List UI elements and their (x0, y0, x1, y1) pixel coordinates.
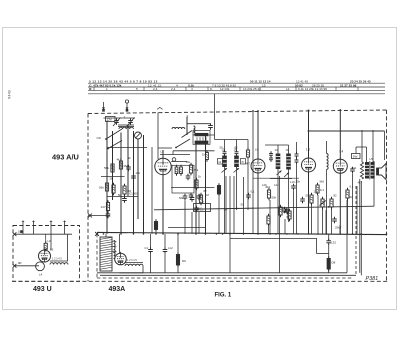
svg-text:C1000: C1000 (129, 192, 138, 196)
output tube V4 (333, 159, 347, 173)
D9 lead lower (177, 265, 179, 273)
cap cluster 1041 box (194, 204, 211, 212)
bottom line 2 (100, 274, 356, 276)
parts value table rules (88, 82, 385, 84)
svg-text:8,: 8, (210, 87, 213, 91)
aerial input wire (104, 117, 136, 119)
resistor D9 (176, 255, 179, 266)
capacitor C5 (131, 175, 136, 177)
IF1 top feed wire (215, 139, 249, 141)
chassis inner dashed line above bottom (97, 277, 352, 279)
caret mark above top edge (157, 107, 163, 109)
D8 chain vertical upper (328, 234, 330, 241)
svg-text:8k2: 8k2 (266, 185, 271, 189)
capacitor C11b (291, 185, 296, 187)
AVC bus wire (154, 206, 374, 210)
svg-text:28: 28 (110, 177, 114, 181)
mid cluster bottom wire (168, 227, 205, 229)
svg-text:5: 5 (136, 87, 138, 91)
grid circuit wire box (172, 165, 194, 193)
capacitor C12 (300, 198, 305, 200)
svg-text:5W: 5W (353, 155, 358, 159)
capacitor L12 bottom (163, 249, 168, 251)
svg-text:147: 147 (101, 205, 106, 209)
V1 cathode resistor (154, 222, 157, 230)
V3 cathode vertical (308, 172, 310, 234)
resistor R9 (199, 195, 202, 203)
IF2 unit 2 coil ladder (286, 154, 291, 170)
bus feeder verticals (151, 147, 153, 234)
cap cluster vertical leads (184, 201, 186, 234)
493A tube top lead (119, 234, 121, 253)
mixer tube V1 (155, 158, 171, 174)
493A transformer primary lead (105, 234, 107, 237)
svg-text:4k7: 4k7 (246, 162, 251, 166)
svg-text:493A: 493A (109, 286, 126, 293)
chassis dashed border bottom (12, 280, 388, 282)
capacitor C8 0,1 (194, 207, 199, 209)
V1 cathode wire (162, 175, 164, 234)
cap cluster capacitor a (183, 195, 188, 197)
V1 anode wire (162, 150, 164, 158)
long vertical x230 (229, 176, 231, 273)
output transformer primary winding (365, 162, 369, 179)
493A transformer taps (112, 241, 117, 243)
svg-text:4: 4 (176, 83, 178, 87)
osc horizontal wire b (195, 134, 215, 136)
cap cluster capacitor c (197, 195, 202, 197)
svg-text:2,4: 2,4 (171, 87, 176, 91)
svg-text:5k6: 5k6 (320, 180, 325, 184)
svg-text:50 11 12 13 14: 50 11 12 13 14 (250, 79, 271, 83)
chassis dashed border left (87, 114, 89, 282)
resistor Ra (175, 167, 178, 174)
V1 top junction wire (158, 147, 172, 149)
front-end vertical wire g (143, 135, 145, 234)
second switch blade (108, 141, 122, 149)
svg-text:13k: 13k (314, 190, 319, 194)
493U output coil (50, 263, 68, 265)
IF2 unit 1 coil ladder (276, 154, 281, 170)
V4 anode vertical (339, 110, 341, 159)
capacitor C6 (106, 213, 111, 215)
output transformer secondary winding (371, 162, 375, 179)
D8 chain vertical mid (328, 245, 330, 259)
svg-text:14: 14 (275, 148, 278, 152)
front-end junction wire (107, 147, 147, 149)
bus left terminal (95, 232, 99, 236)
svg-text:12 13k: 12 13k (220, 87, 230, 91)
svg-text:4,7: 4,7 (200, 200, 204, 204)
IF2 unit 2 top lead (288, 145, 290, 154)
493U coil tail wire (67, 234, 69, 261)
493A mains transformer core (100, 237, 112, 271)
output choke zigzag (360, 162, 363, 179)
right rail drop (384, 131, 386, 160)
resistor R14 0,1 (316, 185, 319, 193)
493A dashed left edge (96, 234, 98, 278)
aerial terminal node (102, 109, 105, 112)
main chassis bus (97, 232, 387, 234)
resistor R11 (267, 190, 270, 198)
493U small circle (36, 262, 45, 271)
svg-text:R:: R: (89, 87, 92, 91)
left edge terminal stub (88, 214, 92, 218)
IF2 adjust arrow 1 (277, 171, 282, 176)
IF2 unit 1 top lead (277, 145, 279, 154)
osc corner drop (172, 151, 174, 155)
chassis dashed border right (386, 110, 388, 281)
svg-text:50k: 50k (272, 196, 277, 200)
svg-text:L5: L5 (50, 248, 54, 252)
oscillator winding bar 2 (195, 141, 208, 144)
IF1 unit 1 lead (224, 140, 226, 152)
IF2 top wire (265, 144, 289, 146)
capacitor Cc (186, 175, 191, 177)
capacitor C9 (246, 194, 251, 196)
AVC junction dot 2 (328, 206, 330, 208)
493A filter coil (125, 264, 143, 266)
svg-text:25k: 25k (193, 168, 198, 172)
493A rectifier tube (115, 253, 127, 265)
svg-text:50: 50 (306, 194, 310, 198)
svg-text:1: 1 (106, 87, 108, 91)
IF1 unit 1 label box (218, 159, 223, 165)
IF1 unit 2 bottom lead (236, 167, 238, 210)
marker circle a (172, 158, 176, 162)
493U tube (39, 250, 51, 262)
svg-text:P381: P381 (366, 276, 379, 282)
L12 leads (164, 234, 166, 250)
svg-text:FIG. 1: FIG. 1 (215, 292, 232, 298)
osc vertical wire a (186, 117, 188, 136)
svg-text:C1: C1 (145, 246, 149, 250)
oscillator core hatching (196, 137, 198, 141)
transformer primary top lead (366, 147, 368, 162)
caps column before V3 (295, 153, 299, 155)
493U resistor (44, 243, 47, 249)
493U terminal block (20, 230, 23, 233)
svg-text:9R: 9R (18, 261, 22, 265)
svg-text:L19: L19 (290, 180, 295, 184)
oscillator switch blade 1 (176, 139, 190, 148)
5W box label (352, 154, 361, 159)
svg-text:56k: 56k (99, 186, 104, 190)
parts table column ticks (93, 87, 95, 91)
IF1 unit 1 adjust arrow (222, 168, 228, 173)
feeder dot V4 anode (339, 109, 341, 111)
second bus line (230, 238, 317, 240)
svg-text:L34: L34 (274, 183, 279, 187)
resistor R16 (346, 190, 349, 198)
svg-text:4k7: 4k7 (117, 158, 122, 162)
IF2 unit 1 bottom lead (277, 169, 279, 234)
osc horizontal wire d (160, 154, 190, 156)
front-end low wire (107, 196, 138, 198)
front-end mid wire (101, 176, 125, 178)
front-end vertical wire d (127, 126, 129, 197)
chassis dashed border top (88, 110, 387, 114)
capacitor C1 bottom (148, 249, 153, 251)
resistor R6 147 (106, 203, 109, 211)
resistor R osc grid (206, 153, 209, 160)
493U resistor top lead (45, 234, 47, 241)
resistor R12 1M (279, 207, 282, 215)
speaker top lead (372, 130, 374, 162)
IF1 unit 1 coil ladder (222, 156, 227, 168)
resistor R3 56k (105, 183, 108, 191)
493U top crossing verticals (22, 221, 24, 235)
493U wire lower (14, 265, 39, 267)
resistor D8 (327, 259, 330, 270)
earth terminal circle (125, 100, 128, 103)
svg-text:16k: 16k (186, 160, 191, 164)
svg-text:6449: 6449 (7, 89, 12, 99)
tuning gang capacitor 1 (114, 120, 119, 122)
493U dashed box (13, 226, 80, 282)
wave-change switch blade (106, 129, 122, 139)
earth terminal arrow (126, 103, 128, 110)
resistor R17 B (267, 216, 270, 224)
svg-text:25k: 25k (296, 180, 301, 184)
oscillator switch blade 2 (182, 131, 193, 138)
493U pin ticks (22, 221, 24, 223)
svg-text:25kV: 25kV (335, 226, 342, 230)
svg-text:1: 1 (124, 116, 126, 120)
V3 anode vertical (308, 110, 310, 158)
svg-text:14 23k 25 41: 14 23k 25 41 (243, 87, 261, 91)
svg-text:C11: C11 (352, 166, 357, 170)
riser x347 (346, 200, 348, 273)
svg-text:493 U: 493 U (33, 286, 52, 293)
IF1 unit 2 coil ladder (234, 156, 239, 168)
volume pot (321, 199, 324, 207)
osc vertical wire c (205, 136, 207, 234)
resistor R7 25k (189, 165, 192, 173)
front-end vertical wire c (120, 133, 122, 234)
earth terminal node (126, 109, 129, 112)
493A transformer winding (114, 241, 116, 259)
V1 lower grid wire (171, 187, 215, 189)
IF1 feeder vertical (214, 111, 216, 140)
svg-text:82: 82 (128, 156, 132, 160)
padder capacitor (208, 125, 213, 127)
svg-text:82: 82 (287, 215, 291, 219)
oscillator winding bar 1 (195, 133, 208, 136)
resistor R5 1M (123, 186, 126, 194)
osc horizontal wire a (187, 123, 210, 125)
dashed riser x356 speaker return (355, 186, 357, 275)
speaker (379, 164, 387, 180)
svg-text:L6: L6 (113, 250, 117, 254)
capacitor C13 (350, 168, 355, 170)
svg-text:L3: L3 (306, 148, 310, 152)
svg-text:82: 82 (204, 189, 208, 193)
capacitor C132 (326, 240, 331, 242)
long vertical x279.5 (279, 176, 281, 273)
oscillator vertical coil (194, 126, 196, 135)
resistor R10 16k (247, 140, 249, 151)
svg-text:21 37 25 98: 21 37 25 98 (340, 83, 357, 87)
IF1 unit 2 trimmer cap (235, 151, 239, 153)
IF2 unit 2 bottom lead (288, 170, 290, 223)
link segment y253 (317, 253, 329, 255)
svg-text:1 2 3 4 5: 1 2 3 4 5 (127, 259, 137, 262)
IF2 adjust arrow 2 (284, 173, 289, 178)
svg-text:CM: CM (107, 118, 112, 122)
svg-text:D9: D9 (182, 259, 186, 263)
493U wire upper (14, 233, 72, 235)
feeder dot V2 anode (257, 110, 259, 112)
svg-text:4k7: 4k7 (358, 181, 363, 185)
svg-text:0,1k 14 23k 12 43 98: 0,1k 14 23k 12 43 98 (298, 87, 327, 91)
493U tap vertical (50, 234, 52, 250)
choke top lead (361, 130, 363, 162)
svg-text:4: 4 (191, 87, 193, 91)
IF1 unit 2 lead (236, 140, 238, 152)
bus junction dots (103, 233, 105, 235)
svg-text:14: 14 (286, 87, 290, 91)
aerial terminal arrow (103, 102, 105, 110)
svg-text:1M: 1M (224, 208, 229, 212)
V1 grid side wire (171, 161, 187, 163)
output transformer core (369, 161, 371, 180)
trimmer CM box label (106, 117, 116, 122)
IF1 unit 2 label box (241, 159, 246, 165)
D8 chain vertical lower (328, 269, 330, 273)
resistor R2 1M (119, 161, 122, 169)
osc horizontal wire c (173, 150, 215, 152)
IF tube V2 (251, 159, 265, 173)
tuning gang capacitor 2 (128, 120, 133, 122)
svg-text:D8: D8 (332, 261, 336, 265)
svg-text:13k: 13k (136, 171, 141, 175)
osc vertical wire b (195, 144, 197, 234)
IF2 side caps (269, 153, 273, 155)
IF1 unit 1 bottom lead (224, 167, 226, 234)
resistor R15 (330, 199, 333, 207)
coil L before V4 (327, 154, 329, 170)
svg-text:56k: 56k (104, 166, 109, 170)
resistor R1 56k (111, 164, 114, 172)
svg-text:50: 50 (118, 193, 122, 197)
vertical feeder from table x215 (214, 94, 216, 111)
capacitor C14 (282, 208, 287, 210)
capacitor C4 (126, 166, 131, 168)
resistor Rb (180, 167, 183, 174)
front-end vertical wire f (137, 139, 139, 219)
IF2 bottom wire (270, 178, 292, 180)
svg-text:82: 82 (235, 146, 239, 150)
AVC junction dot 1 (236, 208, 238, 210)
493U terminal upper (13, 232, 17, 236)
svg-text:2,4: 2,4 (153, 87, 158, 91)
svg-text:50: 50 (220, 146, 224, 150)
svg-text:0,1: 0,1 (320, 188, 325, 192)
oscillator coil outline (193, 131, 210, 145)
detector tube V3 (302, 158, 316, 172)
feeder dot V3 anode (308, 110, 310, 112)
resistor R8 (195, 180, 198, 188)
svg-text:50: 50 (241, 203, 245, 207)
detector output wire (253, 177, 299, 179)
V2 cathode vertical (257, 173, 259, 234)
resistor R4 5k6 (112, 185, 115, 193)
IF1 unit 2 adjust arrow (234, 168, 240, 173)
resistor R13 (310, 195, 313, 203)
front-end vertical wire a (106, 121, 108, 234)
cap cluster capacitor b (190, 197, 195, 199)
svg-text:L4: L4 (39, 273, 43, 277)
capacitor C7 (189, 194, 194, 196)
front-end vertical wire e (133, 131, 135, 234)
front-end vertical wire b (112, 131, 114, 200)
capacitor C10 (285, 209, 290, 211)
svg-text:L5: L5 (161, 149, 165, 153)
feeder dot x253 (252, 110, 254, 112)
AVC riser right (373, 161, 375, 206)
493A bottom wire (120, 272, 144, 274)
trimmer capacitor circle (135, 132, 142, 139)
svg-text:493 A/U: 493 A/U (52, 153, 79, 162)
rail junction dot (308, 130, 310, 132)
svg-text:0,1: 0,1 (251, 190, 255, 194)
svg-text:1 2 3 4 5: 1 2 3 4 5 (52, 258, 62, 261)
V2 anode vertical (257, 111, 259, 159)
C1 leads (150, 234, 152, 250)
right-side rail (309, 130, 385, 132)
capacitor C15 D-label (332, 218, 337, 220)
D9 lead upper (177, 234, 179, 255)
svg-text:82: 82 (334, 194, 338, 198)
bottom line 1 (97, 272, 347, 274)
493U terminal lower (13, 264, 17, 268)
svg-text:L12: L12 (168, 246, 173, 250)
IF1 unit 1 trimmer cap (223, 151, 227, 153)
second bus bend down (316, 238, 318, 253)
svg-text:0,1: 0,1 (350, 185, 354, 189)
aerial coil L1 with core (119, 127, 133, 129)
oscillator coil upper (172, 127, 185, 129)
V1 anode riser to top edge (157, 113, 159, 160)
svg-text:1041: 1041 (196, 207, 203, 211)
svg-text:132: 132 (331, 241, 336, 245)
V4 cathode vertical (339, 173, 341, 234)
resistor R18 (288, 211, 291, 219)
svg-text:15: 15 (262, 83, 266, 87)
resistor R19 dark (217, 186, 220, 195)
